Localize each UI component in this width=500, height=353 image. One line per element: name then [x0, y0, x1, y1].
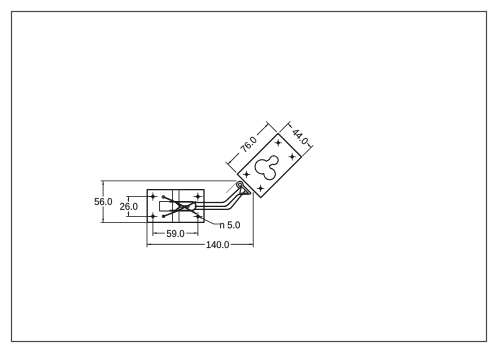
- text 44.0: [291, 128, 308, 145]
- dimension 26.0 line: [127, 197, 129, 217]
- dimension 26.0 arrows: [128, 197, 130, 217]
- dimension 140.0 arrows: [147, 243, 253, 245]
- arm middle line with hook tip outer boundary and curl: [195, 181, 250, 206]
- hole mark angled plate south: [257, 185, 264, 192]
- spring top edge: [170, 201, 192, 203]
- hook wire end thin diagonal: [226, 183, 236, 193]
- dimension 44.0 extension from east corner: [303, 146, 313, 156]
- hole mark plate bottom-right: [194, 213, 203, 221]
- text 56.0: [95, 198, 112, 205]
- spring eye lower: [162, 215, 165, 218]
- keyhole cutout: [255, 156, 278, 180]
- text n 5.0: [220, 221, 240, 228]
- main plate outline: [147, 190, 204, 223]
- dimension 26.0 extension bottom: [126, 215, 151, 217]
- dimension 59.0 line: [153, 232, 198, 234]
- spring slit hairpin: [180, 206, 189, 208]
- strap band line right: [178, 190, 180, 223]
- hook tip curl inner hole: [239, 183, 242, 186]
- strap band line left: [172, 190, 174, 223]
- dimension 140.0 extension left: [146, 222, 148, 247]
- hole mark plate top-right: [194, 193, 203, 201]
- dimension 44.0 line: [288, 124, 311, 148]
- dimension 76.0 extension from west corner: [226, 162, 236, 172]
- spring funnel lower: [176, 207, 180, 211]
- leader n5.0 line: [198, 216, 220, 224]
- hole mark angled plate west: [243, 171, 250, 178]
- arm bottom line: [194, 191, 245, 210]
- dimension 59.0 arrows: [153, 232, 198, 234]
- dimension 76.0 extension from north corner: [266, 122, 276, 132]
- dimension 59.0 extension left: [152, 220, 154, 236]
- dimension 56.0 arrows: [102, 181, 104, 223]
- dimension 26.0 extension top: [126, 196, 151, 198]
- spring eye upper: [162, 196, 165, 199]
- slot window in plate: [160, 201, 193, 211]
- hole mark plate bottom-left: [149, 213, 158, 221]
- text 76.0: [240, 136, 257, 153]
- dimension 140.0 extension right: [252, 192, 254, 247]
- text 26.0: [120, 203, 137, 210]
- dimension 59.0 extension right: [197, 220, 199, 236]
- dimension 76.0 line: [228, 124, 269, 165]
- spring leg upper-left to lower-right: [164, 197, 197, 214]
- spring cap outer: [192, 202, 196, 211]
- spring funnel upper: [175, 202, 179, 206]
- hole mark angled plate east: [289, 153, 296, 160]
- angled plate outline: [237, 133, 301, 197]
- dimension 56.0 line: [102, 181, 104, 223]
- hook tip inner triangle: [240, 186, 249, 193]
- dimension 56.0 extension top: [101, 180, 236, 182]
- dimension 140.0 line: [147, 243, 253, 245]
- spring bottom edge: [170, 210, 192, 212]
- text 59.0: [167, 230, 184, 237]
- dimension 76.0 arrows: [228, 124, 269, 165]
- arm top line: [194, 187, 242, 203]
- dimension 44.0 extension from north corner: [280, 122, 290, 132]
- leader n5.0 arrow: [198, 216, 202, 219]
- hole mark plate top-left: [149, 193, 158, 201]
- hole mark angled plate north: [275, 139, 282, 146]
- text 140.0: [207, 241, 229, 248]
- spring leg lower-left to upper-right: [164, 202, 196, 217]
- dimension 44.0 arrows: [288, 124, 311, 148]
- dimension 56.0 extension bottom: [101, 221, 146, 223]
